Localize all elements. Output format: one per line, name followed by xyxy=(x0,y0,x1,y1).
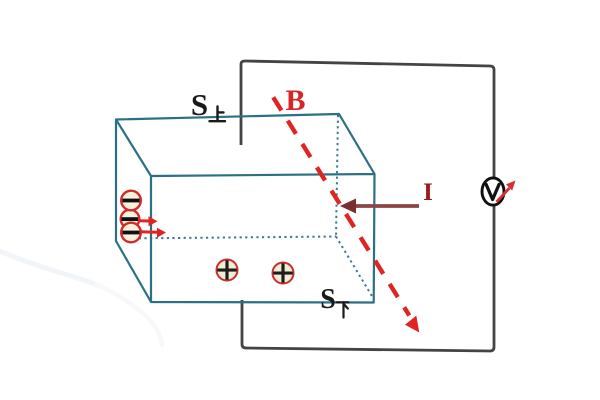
velocity arrow of charge 3 xyxy=(140,228,166,238)
wire: top electrode lead from S上 contact xyxy=(240,64,243,145)
svg-text:S: S xyxy=(191,87,208,122)
svg-text:S: S xyxy=(320,284,336,315)
voltmeter V (meter body) xyxy=(482,178,504,205)
negative charge carrier 3 (bottom) xyxy=(121,223,141,243)
wire: bottom electrode lead to S下 contact xyxy=(241,300,244,344)
subscript 上 glyph of S上 (drawn strokes) xyxy=(210,107,226,122)
magnetic field B dashed arrow xyxy=(273,97,419,332)
wire: right vertical run through voltmeter xyxy=(493,70,496,347)
semiconductor slab: visible edges xyxy=(116,114,375,303)
positive charge 1 on front face xyxy=(217,260,238,281)
velocity arrow of charge 2 xyxy=(138,216,158,226)
current arrow I (into right face) xyxy=(340,199,419,214)
watermark swirl (background) xyxy=(0,248,162,345)
svg-text:B: B xyxy=(285,84,305,117)
voltmeter needle arrow xyxy=(497,181,516,203)
wire: top horizontal run xyxy=(241,61,494,70)
subscript 下 glyph of S下 (drawn strokes) xyxy=(337,302,349,317)
negative charge carrier 2 (middle, behind) xyxy=(121,210,140,229)
wire: bottom horizontal run xyxy=(242,344,494,351)
slab hidden edge: back-right vertical (dotted) xyxy=(336,115,338,237)
negative charge carrier 1 (top) xyxy=(121,191,141,211)
slab hidden edge: bottom-right depth (dotted) xyxy=(336,237,373,298)
svg-text:I: I xyxy=(423,179,433,206)
slab hidden edge: back-bottom (dotted) xyxy=(122,237,336,239)
positive charge 2 on front face xyxy=(273,263,294,284)
